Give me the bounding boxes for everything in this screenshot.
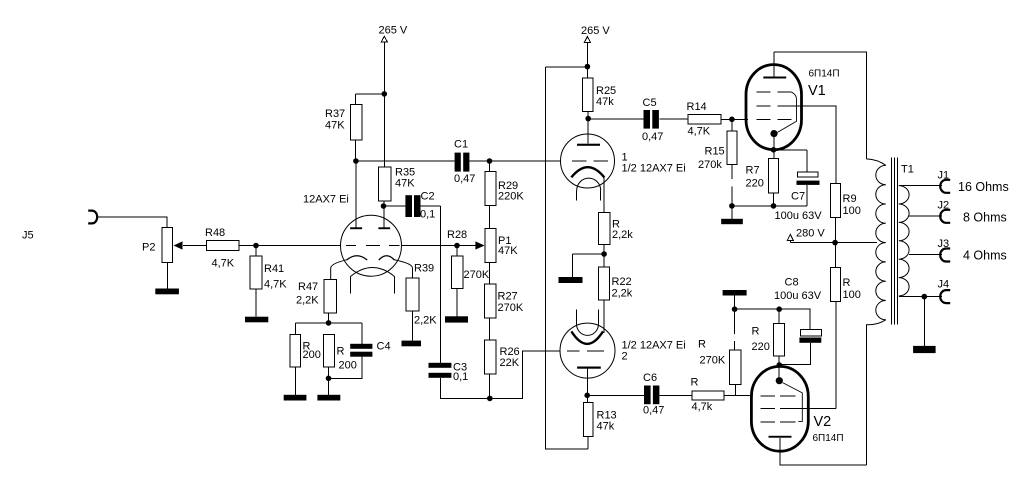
svg-text:100u 63V: 100u 63V [774,290,822,302]
svg-text:270k: 270k [698,159,722,171]
svg-text:47k: 47k [596,96,614,108]
svg-text:4,7K: 4,7K [212,258,235,270]
svg-text:200: 200 [303,349,321,361]
svg-text:220: 220 [746,178,764,190]
svg-text:J2: J2 [938,200,950,212]
svg-text:R48: R48 [205,227,225,239]
svg-text:C4: C4 [377,341,391,353]
svg-text:270K: 270K [700,355,726,367]
svg-text:R39: R39 [414,263,434,275]
svg-text:265 V: 265 V [581,25,610,37]
svg-text:0,47: 0,47 [643,405,664,417]
svg-text:2,2k: 2,2k [612,288,633,300]
svg-text:47K: 47K [325,120,345,132]
svg-text:4 Ohms: 4 Ohms [963,249,1007,263]
svg-text:12AX7 Ei: 12AX7 Ei [303,194,349,206]
svg-text:C7: C7 [791,191,805,203]
svg-text:R7: R7 [746,165,760,177]
svg-text:R15: R15 [705,146,725,158]
svg-text:T1: T1 [901,164,914,176]
svg-text:200: 200 [339,360,357,372]
svg-text:R: R [691,377,699,389]
svg-text:J3: J3 [938,238,950,250]
svg-text:1/2 12AX7 Ei: 1/2 12AX7 Ei [622,340,686,352]
svg-text:C6: C6 [643,372,657,384]
svg-text:4,7K: 4,7K [688,126,711,138]
svg-text:16 Ohms: 16 Ohms [958,180,1009,194]
svg-text:2: 2 [622,351,628,363]
svg-text:R: R [843,277,851,289]
svg-text:22K: 22K [500,357,520,369]
svg-text:2,2K: 2,2K [414,315,437,327]
svg-text:2,2k: 2,2k [612,229,633,241]
svg-text:R41: R41 [264,263,284,275]
svg-text:C8: C8 [785,277,799,289]
svg-text:0,47: 0,47 [454,173,475,185]
svg-text:R9: R9 [843,193,857,205]
svg-text:V2: V2 [814,414,832,430]
svg-text:J1: J1 [938,170,950,182]
svg-text:6П14П: 6П14П [809,69,840,80]
svg-text:270K: 270K [498,302,524,314]
svg-text:4,7K: 4,7K [264,279,287,291]
svg-text:1/2 12AX7 Ei: 1/2 12AX7 Ei [622,163,686,175]
svg-text:220: 220 [752,341,770,353]
svg-text:C5: C5 [643,97,657,109]
svg-text:R: R [337,346,345,358]
svg-text:47K: 47K [395,178,415,190]
svg-text:265 V: 265 V [379,25,408,37]
svg-text:0,1: 0,1 [420,209,435,221]
svg-text:J4: J4 [938,279,950,291]
svg-text:100: 100 [843,289,861,301]
svg-text:R: R [752,326,760,338]
svg-text:R47: R47 [298,281,318,293]
svg-text:R27: R27 [498,291,518,303]
svg-text:47k: 47k [597,421,615,433]
svg-text:R22: R22 [612,276,632,288]
svg-text:4,7k: 4,7k [692,401,713,413]
svg-text:R14: R14 [687,101,707,113]
svg-text:8 Ohms: 8 Ohms [963,211,1007,225]
svg-text:100u 63V: 100u 63V [775,210,823,222]
svg-text:280 V: 280 V [796,228,825,240]
svg-text:P2: P2 [142,242,155,254]
svg-text:C2: C2 [421,191,435,203]
svg-text:V1: V1 [808,83,826,99]
svg-text:100: 100 [843,205,861,217]
svg-text:0,1: 0,1 [453,371,468,383]
svg-text:R28: R28 [447,229,467,241]
svg-text:R37: R37 [325,108,345,120]
svg-text:220K: 220K [498,191,524,203]
svg-text:C1: C1 [454,139,468,151]
svg-text:270K: 270K [464,269,490,281]
svg-text:0,47: 0,47 [642,131,663,143]
svg-text:47K: 47K [498,245,518,257]
svg-text:R: R [698,339,706,351]
svg-text:6П14П: 6П14П [813,433,844,444]
svg-text:2,2K: 2,2K [296,295,319,307]
svg-text:J5: J5 [22,230,34,242]
